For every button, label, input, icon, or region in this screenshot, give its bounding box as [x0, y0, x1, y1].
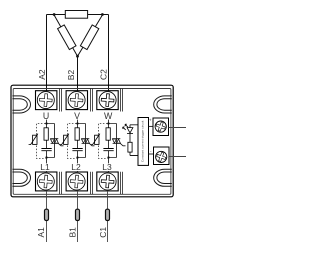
- phase W circuit: [91, 111, 126, 172]
- module outer case: [11, 85, 173, 197]
- svg-text:U: U: [43, 111, 49, 121]
- wire: [78, 120, 86, 172]
- wire LED branch: [130, 125, 138, 156]
- screw terminal C2: [97, 91, 118, 110]
- divider wall: [91, 89, 93, 112]
- fuse B1: [76, 209, 80, 220]
- triac: [81, 139, 94, 146]
- divider wall: [60, 172, 62, 194]
- wire control to terminal 4: [149, 153, 155, 155]
- resistor load right diagonal: [80, 25, 98, 50]
- node bottom: [76, 156, 78, 158]
- wire A1: [46, 191, 48, 242]
- wire: [47, 120, 55, 172]
- phase U circuit: [29, 111, 64, 172]
- wire B1: [77, 191, 79, 242]
- svg-text:C2: C2: [99, 69, 109, 80]
- varistor: [60, 134, 69, 145]
- svg-text:Constant current trigger circu: Constant current trigger circuit: [141, 121, 145, 163]
- node left: [53, 13, 56, 16]
- node bottom: [107, 156, 109, 158]
- svg-text:W: W: [104, 111, 113, 121]
- node bottom vertex: [76, 55, 79, 58]
- screw terminal L1: [36, 172, 57, 191]
- divider wall: [91, 172, 93, 194]
- screw terminal L3: [97, 172, 118, 191]
- snubber dashed box: [37, 124, 46, 159]
- svg-text:L1: L1: [40, 162, 50, 172]
- divider wall: [121, 89, 123, 112]
- snubber dashed box: [68, 124, 77, 159]
- snubber resistor: [106, 128, 110, 140]
- mounting slot top-right: [154, 96, 172, 113]
- mounting slot top-left: [12, 96, 30, 113]
- varistor: [91, 134, 100, 145]
- snubber dashed box: [99, 124, 108, 159]
- svg-text:C1: C1: [98, 227, 108, 238]
- triac: [50, 139, 63, 146]
- screw terminal input -: [154, 147, 170, 165]
- snubber resistor: [44, 128, 48, 140]
- svg-text:V: V: [74, 111, 80, 121]
- wire control input + lead: [169, 127, 187, 129]
- svg-text:L2: L2: [71, 162, 81, 172]
- wire: [88, 15, 109, 91]
- module inner case line: [13, 89, 171, 195]
- wire: [54, 14, 65, 16]
- phase V circuit: [60, 111, 95, 172]
- svg-text:+: +: [149, 117, 152, 122]
- mounting slot bottom-left: [12, 169, 30, 186]
- divider wall: [121, 172, 123, 194]
- LED D1: [123, 124, 133, 133]
- resistor load R top: [65, 11, 87, 19]
- svg-text:L3: L3: [102, 162, 112, 172]
- node top: [45, 122, 47, 124]
- snubber resistor: [75, 128, 79, 140]
- svg-text:A2: A2: [37, 69, 47, 80]
- svg-text:B2: B2: [66, 70, 76, 81]
- node bottom: [45, 156, 47, 158]
- node top: [76, 122, 78, 124]
- resistor R led: [128, 142, 132, 152]
- screw terminal A2: [36, 91, 57, 110]
- triac: [112, 139, 125, 146]
- wire: [109, 120, 117, 172]
- svg-text:A1: A1: [36, 227, 46, 238]
- resistor load left diagonal: [58, 25, 76, 50]
- node right: [101, 13, 104, 16]
- wire control to terminal 3: [149, 125, 154, 127]
- control circuit box U1: [138, 118, 149, 166]
- wire: [77, 56, 79, 90]
- fuse C1: [106, 209, 110, 220]
- mounting slot bottom-right: [154, 169, 172, 186]
- snubber capacitor: [72, 149, 82, 151]
- wire control input - lead: [169, 156, 186, 158]
- screw terminal B2: [66, 91, 87, 110]
- wire: [54, 15, 102, 56]
- wire C1: [107, 191, 109, 242]
- divider wall: [60, 89, 62, 112]
- node top: [107, 122, 109, 124]
- wire: [47, 15, 55, 91]
- snubber capacitor: [41, 149, 51, 151]
- snubber capacitor: [103, 149, 113, 151]
- fuse A1: [45, 209, 49, 220]
- svg-text:B1: B1: [68, 227, 78, 238]
- screw terminal L2: [66, 172, 87, 191]
- screw terminal input +: [153, 118, 169, 136]
- varistor: [29, 134, 38, 145]
